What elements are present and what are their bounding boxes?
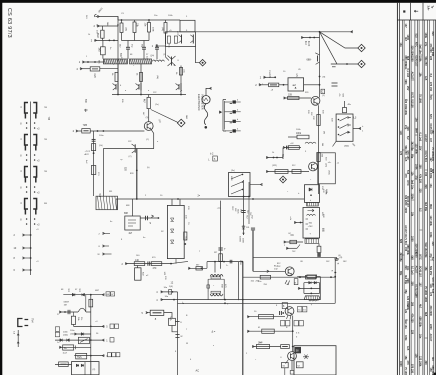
svg-text:W: W — [186, 343, 188, 345]
black left border bar — [0, 0, 2, 375]
svg-text:(322): (322) — [272, 165, 277, 167]
ferrite rod antenna coil — [103, 59, 127, 64]
svg-text:8M2: 8M2 — [96, 33, 99, 38]
resistor 1400 — [134, 262, 145, 266]
svg-text:(9): (9) — [323, 77, 326, 79]
wire y147 with box — [283, 147, 301, 149]
svg-text:1M: 1M — [323, 131, 325, 134]
mixer output vertical x220 — [220, 201, 222, 269]
pill before T8 — [281, 345, 290, 349]
svg-text:(1): (1) — [322, 95, 325, 97]
svg-text:75 1000: 75 1000 — [404, 367, 407, 375]
svg-text:122 100k: 122 100k — [419, 356, 422, 367]
osc transistor on rail — [134, 144, 136, 152]
svg-text:27p: 27p — [414, 176, 417, 181]
output box big — [294, 346, 336, 375]
svg-text:(4): (4) — [340, 257, 343, 259]
capacitor 1n5 below — [102, 40, 104, 46]
svg-text:a2: a2 — [293, 83, 297, 87]
resistor 8M2 between input wires — [101, 26, 103, 30]
svg-text:330k: 330k — [424, 252, 427, 258]
bias rail wire y40 — [122, 40, 150, 42]
svg-text:12k: 12k — [411, 172, 414, 177]
svg-text:6k8: 6k8 — [431, 169, 434, 174]
svg-text:(10k): (10k) — [63, 334, 68, 336]
terminal wire y77 — [263, 76, 275, 78]
svg-text:390: 390 — [419, 165, 422, 170]
svg-text:100k: 100k — [296, 133, 302, 135]
chain resistor 2 — [91, 166, 95, 175]
svg-text:100k: 100k — [414, 164, 417, 170]
svg-text:48s: 48s — [348, 104, 351, 106]
svg-text:220: 220 — [411, 330, 414, 335]
bias transistor stage2 — [138, 84, 140, 90]
filter box internals diode2 — [171, 229, 174, 232]
coupling capacitor stage3 — [155, 46, 159, 48]
supply rail A y299 — [178, 299, 321, 301]
supply vertical below oscillator — [318, 105, 320, 194]
main box inner dashes — [306, 218, 309, 220]
w7 corner vertical — [206, 262, 208, 269]
svg-text:970 150: 970 150 — [429, 82, 432, 92]
resistor 1k1 under transformer — [318, 243, 320, 246]
transistor stage 3 star — [171, 57, 173, 66]
resistor 4700 — [151, 262, 162, 266]
chain resistor 1 — [92, 144, 96, 151]
resistor on y277 right — [306, 275, 316, 279]
wire y277 rail — [243, 276, 336, 278]
diagonal wire to meter diamond — [151, 110, 178, 123]
svg-text:1n5: 1n5 — [406, 346, 409, 351]
rail junction dots — [121, 19, 123, 21]
dots on rails — [224, 299, 226, 301]
svg-text:220: 220 — [429, 56, 432, 61]
svg-text:820: 820 — [399, 239, 402, 244]
switch arm 2 — [338, 126, 340, 128]
svg-text:8,2: 8,2 — [406, 136, 409, 140]
dashed agc box — [318, 153, 336, 184]
wire y248 stub — [286, 247, 297, 249]
svg-text:3k3 68p: 3k3 68p — [424, 202, 427, 212]
svg-text:+TC2: +TC2 — [85, 151, 91, 153]
IF output transformer top box — [305, 185, 320, 203]
dot and plus in top box — [310, 194, 312, 196]
svg-text:220: 220 — [419, 189, 422, 194]
main box inner arrow — [308, 209, 315, 212]
mid cluster coil — [305, 142, 316, 143]
svg-text:7M5: 7M5 — [83, 125, 88, 127]
resistor right of filter box — [184, 232, 187, 240]
B17 switch arm 3 — [231, 190, 242, 195]
svg-text:25V: 25V — [406, 86, 409, 91]
wires above rail crossing — [243, 180, 245, 235]
svg-text:3k3 68p: 3k3 68p — [411, 142, 414, 152]
svg-text:4k7: 4k7 — [431, 357, 434, 362]
af transformer core band — [211, 277, 221, 279]
svg-text:AC107: AC107 — [404, 225, 407, 233]
svg-text:(300): (300) — [327, 170, 329, 175]
svg-text:100k: 100k — [424, 33, 427, 39]
svg-text:47k 220: 47k 220 — [419, 174, 422, 184]
small resistor on y242 — [290, 240, 297, 243]
mid cluster resistor 100k — [297, 135, 309, 139]
band switch contact 3 — [225, 120, 233, 122]
voltmeter top wire — [206, 88, 211, 95]
meter diamond connector — [177, 119, 185, 127]
labels y355 — [108, 353, 112, 357]
collector resistor stage3 — [165, 20, 167, 23]
diode in top box — [309, 188, 312, 191]
svg-text:75 1000: 75 1000 — [419, 94, 422, 104]
vertical drop to oscillator section — [136, 149, 138, 200]
diagonal to lower DIN — [320, 32, 359, 64]
wire y331 — [247, 330, 293, 332]
chain tap 10 — [23, 247, 31, 249]
switch unit 2 right contact — [33, 135, 36, 146]
emitter resistor stage2 — [140, 72, 143, 81]
svg-text:(3x): (3x) — [231, 170, 235, 172]
mains entry box — [72, 362, 100, 375]
svg-text:27p: 27p — [424, 42, 427, 47]
svg-text:+762: +762 — [308, 226, 314, 228]
switch unit 3 right contact — [33, 167, 36, 178]
drop from resistor 1400 — [136, 266, 138, 268]
svg-text:330k: 330k — [419, 56, 422, 62]
svg-text:VOLTMETER: VOLTMETER — [200, 94, 204, 110]
cap dot right — [229, 260, 231, 264]
output resistor B — [296, 362, 303, 368]
svg-text:56k 25V: 56k 25V — [429, 266, 432, 276]
svg-text:NTC: NTC — [414, 42, 417, 47]
mixer block box — [166, 32, 196, 47]
svg-text:25V: 25V — [419, 146, 422, 151]
dashes x333 y84 — [332, 82, 338, 84]
svg-text:(C): (C) — [129, 156, 132, 158]
agc pill component 7M5 — [82, 129, 90, 133]
svg-text:OC71 515: OC71 515 — [424, 151, 427, 163]
table extra horizontal tick marks — [402, 59, 405, 61]
bc label box — [282, 303, 287, 309]
svg-text:3,4+: 3,4+ — [427, 6, 431, 12]
winding hatch below main box — [305, 239, 319, 244]
right side vertical x335 — [334, 259, 336, 304]
winding hatch band below top box — [307, 202, 319, 206]
input transistor at rail bottom — [117, 83, 119, 91]
wire below box y242 — [284, 241, 303, 243]
switch arm 3 — [338, 134, 340, 136]
bus tick marks lower — [175, 334, 179, 336]
svg-text:515: 515 — [414, 34, 417, 39]
svg-text:TES: TES — [77, 356, 82, 359]
osc terminal mark 1 — [103, 232, 111, 234]
oscillator transformer hatched — [96, 196, 118, 210]
svg-text:18k: 18k — [419, 73, 422, 78]
svg-text:1(4): 1(4) — [169, 286, 173, 288]
svg-text:(10k): (10k) — [70, 333, 75, 335]
svg-text:NTC: NTC — [419, 255, 422, 260]
svg-text:(10): (10) — [125, 27, 127, 31]
wire into mains box — [55, 363, 72, 365]
bridge top wire with diodes — [304, 282, 320, 284]
small box bottom on vertical — [290, 371, 294, 375]
svg-text:688-: 688- — [307, 59, 312, 62]
svg-text:100k: 100k — [406, 305, 409, 311]
rf amp transistor — [144, 122, 153, 131]
left supply rail vertical — [117, 17, 119, 95]
svg-text:5n6 10n: 5n6 10n — [404, 320, 407, 330]
long vertical bus x177 — [177, 292, 179, 375]
svg-text:100k: 100k — [429, 232, 432, 238]
af transformer primary winding — [210, 275, 223, 277]
cap pair on feed — [169, 290, 172, 294]
svg-text:0,1 1n5: 0,1 1n5 — [406, 69, 409, 78]
top supply rail — [118, 19, 180, 21]
table header symbol a — [403, 10, 405, 12]
emitter lead stage3 — [180, 66, 182, 95]
long distribution rail to right — [195, 31, 353, 33]
wire y171 af takeoff — [266, 171, 309, 173]
bridge mid wire — [298, 287, 320, 289]
switch chain center line — [30, 102, 32, 276]
base lead stage3 up — [165, 47, 167, 58]
dark label square in box — [295, 347, 301, 353]
af diamond connector — [280, 176, 287, 183]
box to bus corner — [172, 326, 178, 332]
supply vertical from node — [319, 32, 321, 98]
small square label C right — [321, 89, 325, 93]
table body column rules — [402, 20, 404, 375]
diode on y277 — [299, 276, 301, 278]
feed wire y291 with arrow — [161, 291, 178, 293]
short wire y37 into supply — [301, 37, 320, 39]
wire pill to bridge corner — [297, 276, 307, 278]
band switch contact 1 — [225, 101, 233, 103]
pill on mains wire — [59, 362, 69, 367]
svg-text:0C45 107: 0C45 107 — [419, 266, 422, 277]
link to transformer wire — [171, 261, 188, 263]
cap tick on wire — [147, 261, 149, 265]
terminal arrow into pill — [76, 130, 82, 132]
svg-text:18k: 18k — [431, 130, 434, 135]
dots on drop — [136, 170, 138, 172]
resistor on af wire — [275, 170, 288, 174]
ferrite rod coil segment 2 — [130, 59, 152, 64]
trimmer capacitor C20 pill — [90, 67, 100, 71]
svg-text:10n: 10n — [406, 266, 409, 271]
af transformer secondary winding — [210, 294, 223, 296]
svg-text:5(4): 5(4) — [169, 317, 171, 321]
tick marks above pill — [85, 109, 87, 112]
agc wire to rf transistor — [90, 130, 144, 132]
svg-text:0,1 1n5: 0,1 1n5 — [419, 133, 422, 142]
wire from switch box right — [353, 128, 361, 130]
rail corner arrowhead — [317, 298, 320, 300]
svg-text:7M: 7M — [47, 117, 51, 121]
svg-text:122 100k: 122 100k — [404, 99, 407, 110]
table header separator 2 — [422, 3, 424, 20]
svg-text:3k3 68p: 3k3 68p — [431, 47, 434, 57]
pill input wire — [146, 312, 150, 314]
svg-text:1000: 1000 — [411, 236, 414, 242]
band switch contact 4 — [225, 130, 233, 132]
svg-text:5n6 10n: 5n6 10n — [411, 180, 414, 190]
switch unit 1 left contact — [25, 103, 28, 114]
svg-text:150: 150 — [411, 104, 414, 109]
switch unit 2 left contact — [25, 135, 28, 146]
svg-text:Δ =: Δ = — [212, 330, 216, 334]
lower DIN diamond — [358, 60, 365, 67]
driver emitter marks — [285, 280, 287, 284]
rail junction dots2 — [177, 198, 179, 200]
lower left wire y263 — [125, 263, 171, 265]
bridge right vertical — [319, 283, 321, 294]
svg-text:10n: 10n — [414, 118, 417, 123]
resistor on x220 — [219, 254, 223, 261]
band switch contact 2 — [225, 111, 233, 113]
svg-text:0C45 107: 0C45 107 — [414, 56, 417, 67]
svg-text:820: 820 — [431, 32, 434, 37]
small labels mid left — [55, 327, 59, 332]
filled square component — [317, 253, 321, 257]
agc vertical chain — [93, 131, 95, 196]
svg-text:1M: 1M — [321, 143, 323, 146]
svg-text:330k: 330k — [404, 335, 407, 341]
svg-text:0M4: 0M4 — [406, 279, 409, 284]
chain capacitor — [92, 138, 96, 140]
emitter lead stage2 — [140, 64, 142, 95]
B17 switch arm 2 — [231, 182, 242, 187]
filter box internals diode1 — [171, 218, 174, 221]
resistor 56k vertical — [73, 312, 75, 316]
mixer block resistor A — [167, 36, 170, 43]
svg-text:5n6 10n: 5n6 10n — [424, 243, 427, 253]
diode on x243 chain — [242, 226, 245, 229]
io wire y294 with diodes — [63, 294, 104, 296]
wire antenna to rail — [96, 17, 119, 21]
audio driver transistor — [285, 267, 294, 276]
resistor on bus x90 — [89, 299, 93, 307]
wire y40 input — [94, 39, 118, 41]
T8 emitter stub — [286, 360, 289, 364]
svg-text:AC107: AC107 — [424, 134, 427, 142]
cap marks on x243 chain — [241, 210, 245, 212]
svg-text:4%: 4% — [338, 94, 340, 97]
wire trimmer to left rail — [100, 68, 118, 70]
junction dot — [109, 40, 111, 42]
svg-text:4k7: 4k7 — [419, 304, 422, 309]
svg-text:150: 150 — [424, 172, 427, 177]
svg-text:2200: 2200 — [429, 324, 432, 330]
svg-text:1M: 1M — [64, 304, 67, 306]
output transistor 1 — [285, 307, 294, 316]
svg-text:68p: 68p — [404, 290, 407, 295]
svg-text:2200: 2200 — [404, 208, 407, 214]
mixer block resistor B — [174, 36, 177, 43]
B17 switch arm 1 — [231, 175, 242, 180]
mixer input arrow — [156, 45, 166, 47]
switch box on y340 — [78, 337, 89, 343]
emitter resistor stage3 — [179, 68, 182, 76]
label boxes 1k4 152 — [298, 307, 302, 312]
svg-text:8,2: 8,2 — [429, 74, 432, 78]
svg-text:515: 515 — [429, 96, 432, 101]
svg-text:0M4: 0M4 — [429, 204, 432, 209]
svg-text:688 330k: 688 330k — [431, 366, 434, 375]
resistor 339 on transistor base — [288, 97, 299, 100]
af transformer legs to rails — [207, 293, 209, 300]
diagonal to upper DIN — [320, 32, 359, 48]
emitter resistor stage1 — [115, 72, 118, 81]
svg-text:2200: 2200 — [411, 56, 414, 62]
svg-text:515: 515 — [406, 170, 409, 175]
svg-text:107: 107 — [419, 283, 422, 288]
oscillator transistor — [311, 96, 320, 105]
svg-text:AC107: AC107 — [414, 266, 417, 274]
long vertical bus x90 — [90, 295, 92, 375]
bus tick marks B — [175, 321, 179, 323]
switch unit 1 right contact — [33, 103, 36, 114]
short bus x85 — [85, 295, 87, 312]
svg-text:18k: 18k — [424, 267, 427, 272]
coil link squiggle — [152, 60, 164, 62]
oscillator pill component — [269, 83, 279, 87]
resistor on y277 left — [260, 275, 270, 279]
wire jump hump y312 — [78, 308, 86, 312]
svg-text:18k: 18k — [411, 212, 414, 217]
rail end arrow — [351, 31, 353, 33]
svg-text:1n5: 1n5 — [98, 48, 101, 53]
cap on y312 — [67, 310, 69, 314]
svg-text:10n: 10n — [399, 43, 402, 48]
svg-text:970 150: 970 150 — [431, 278, 434, 288]
svg-text:470: 470 — [404, 174, 407, 179]
io wire y340 with diode pair — [55, 339, 105, 341]
resistor 1k4 on y346 — [257, 344, 270, 348]
svg-text:0M47: 0M47 — [64, 301, 70, 303]
switch unit 2 contact dots — [26, 154, 28, 156]
svg-text:390: 390 — [424, 361, 427, 366]
vertical T7 to T8 — [292, 316, 294, 352]
svg-text:(17): (17) — [325, 163, 327, 167]
local rail y148 — [103, 148, 154, 150]
svg-text:390: 390 — [411, 302, 414, 307]
svg-text:(4): (4) — [338, 255, 341, 257]
svg-text:0,1 1n5: 0,1 1n5 — [411, 266, 414, 275]
small box under driver — [294, 279, 298, 285]
svg-text:3k3 68p: 3k3 68p — [399, 253, 402, 263]
svg-text:8,2: 8,2 — [431, 257, 434, 261]
svg-text:4100: 4100 — [307, 41, 309, 47]
wire y157 — [266, 157, 283, 159]
stub below switch box — [333, 141, 337, 146]
speaker feed pill — [150, 310, 164, 315]
af transformer primary feed — [214, 262, 216, 273]
converter box a2 — [288, 78, 304, 91]
chain tap 6 — [23, 269, 31, 271]
band switch arrow left — [219, 111, 222, 114]
svg-text:(1k): (1k) — [156, 75, 158, 79]
svg-text:10n: 10n — [419, 334, 422, 339]
junction dot on wire — [170, 263, 172, 265]
bridge left vertical — [303, 283, 305, 294]
audio driver feed wire y271 — [253, 270, 285, 272]
component above switch box — [343, 108, 347, 113]
svg-text:(10): (10) — [161, 27, 163, 31]
svg-text:0M4: 0M4 — [404, 80, 407, 85]
svg-text:100k: 100k — [404, 110, 407, 116]
svg-text:0M4: 0M4 — [414, 128, 417, 133]
rectifier resistor top — [307, 275, 317, 278]
